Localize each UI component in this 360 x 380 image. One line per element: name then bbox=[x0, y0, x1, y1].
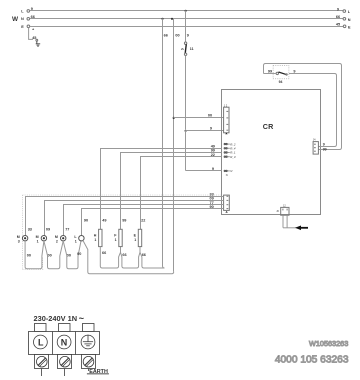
connector J6 on CR bottom bbox=[276, 204, 289, 215]
CR pin N bbox=[224, 169, 233, 177]
svg-text:W10563263: W10563263 bbox=[309, 339, 348, 348]
CR pin R_4 bbox=[224, 147, 236, 151]
svg-text:J6: J6 bbox=[276, 210, 279, 213]
svg-text:1: 1 bbox=[115, 238, 117, 242]
connector J4 on CR bbox=[313, 138, 327, 154]
svg-text:09: 09 bbox=[46, 228, 50, 232]
svg-text:9: 9 bbox=[187, 34, 189, 38]
CR pin R_1 bbox=[224, 151, 236, 155]
screw box N bbox=[58, 355, 72, 369]
svg-text:11: 11 bbox=[190, 47, 194, 51]
svg-text:1: 1 bbox=[134, 238, 136, 242]
dashed enclosure switch panel bbox=[23, 195, 222, 269]
wire L1 to 00 bus outer loop bbox=[83, 240, 174, 273]
wire stub L bbox=[41, 369, 43, 377]
svg-text:66: 66 bbox=[336, 15, 340, 19]
svg-text:N: N bbox=[348, 18, 351, 22]
terminal block 230-240V bbox=[29, 314, 109, 376]
svg-text:CR: CR bbox=[263, 122, 274, 131]
heater H1 bbox=[94, 219, 107, 255]
screw box L bbox=[35, 355, 49, 369]
wire earth branch 45 bbox=[29, 28, 38, 41]
svg-text:E: E bbox=[21, 25, 24, 29]
wire stub earth bbox=[88, 369, 90, 372]
svg-text:77: 77 bbox=[65, 228, 69, 232]
control board CR bbox=[222, 90, 321, 215]
svg-text:66: 66 bbox=[122, 253, 126, 257]
wire J6 down pair bbox=[283, 215, 297, 228]
push switch M1 bbox=[36, 235, 52, 257]
svg-text:33: 33 bbox=[28, 228, 32, 232]
wire 66 vertical from N bbox=[163, 19, 168, 269]
svg-text:45: 45 bbox=[336, 23, 340, 27]
svg-text:F: F bbox=[114, 234, 117, 238]
wire 77 bbox=[64, 201, 224, 236]
wire 00 into CR top connector bbox=[174, 114, 224, 118]
svg-text:1: 1 bbox=[94, 238, 96, 242]
heater E1 bbox=[134, 219, 146, 258]
svg-text:N: N bbox=[21, 17, 24, 21]
wire stub N bbox=[64, 369, 66, 377]
connector J1 on CR bbox=[224, 105, 229, 135]
wire 90 bbox=[82, 205, 224, 236]
svg-text:M: M bbox=[55, 235, 58, 239]
svg-text:00: 00 bbox=[77, 252, 81, 256]
screw box E bbox=[82, 355, 96, 369]
svg-text:L: L bbox=[21, 9, 24, 13]
svg-text:E: E bbox=[134, 234, 137, 238]
svg-text:230-240V 1N: 230-240V 1N bbox=[34, 314, 78, 323]
svg-text:L: L bbox=[38, 337, 44, 347]
wire 22 bbox=[141, 153, 222, 229]
wire 99 loop to J4 bbox=[264, 64, 342, 150]
wire 9 into CR top connector bbox=[186, 127, 224, 171]
wire 00 vertical from N bbox=[174, 19, 180, 272]
wire 9 to pin N bbox=[186, 167, 222, 171]
terminal E right bbox=[336, 23, 351, 30]
terminal earth circle bbox=[81, 335, 95, 349]
svg-text:H: H bbox=[94, 234, 97, 238]
wire M3 to M1 bus bbox=[25, 241, 44, 269]
svg-text:1: 1 bbox=[75, 240, 77, 244]
wire 9 from switch to J4 bbox=[289, 70, 337, 147]
svg-text:L: L bbox=[348, 10, 351, 14]
svg-text:1: 1 bbox=[37, 240, 39, 244]
wire N bbox=[30, 15, 343, 19]
svg-text:N: N bbox=[61, 337, 68, 347]
svg-text:M: M bbox=[36, 235, 39, 239]
svg-text:2: 2 bbox=[56, 240, 58, 244]
svg-text:N: N bbox=[226, 173, 228, 177]
junction 00 to CR connector bbox=[173, 117, 175, 119]
wire 9 vertical from L bbox=[186, 11, 189, 43]
svg-text:3: 3 bbox=[18, 240, 20, 244]
svg-text:66: 66 bbox=[102, 251, 106, 255]
terminal L right bbox=[337, 7, 351, 14]
push switch M3 bbox=[17, 235, 31, 267]
junction on N at x162.5 bbox=[161, 18, 163, 20]
svg-text:4000 105 63263: 4000 105 63263 bbox=[275, 355, 349, 366]
svg-text:66: 66 bbox=[164, 34, 168, 38]
svg-text:9: 9 bbox=[337, 7, 339, 11]
arrow out bbox=[295, 226, 308, 231]
svg-text:M: M bbox=[17, 235, 20, 239]
svg-text:00: 00 bbox=[67, 253, 71, 257]
wire H1 to F1 loop bbox=[100, 247, 120, 268]
wire 33 bbox=[26, 192, 224, 235]
wire M1 to M2 loop bbox=[44, 241, 63, 269]
junction 9 to CR connector bbox=[185, 130, 187, 132]
wire F1 to E1 loop bbox=[121, 247, 141, 268]
wire 99 to switch bbox=[264, 70, 277, 74]
wire M2 to L1 loop bbox=[63, 241, 81, 269]
svg-text:66: 66 bbox=[142, 253, 146, 257]
connector J3 on CR bottom-left bbox=[224, 195, 230, 213]
svg-text:L: L bbox=[74, 235, 77, 239]
tab E bbox=[83, 324, 95, 332]
block body bbox=[29, 332, 100, 355]
terminal N left bbox=[21, 17, 30, 21]
svg-text:00: 00 bbox=[175, 34, 179, 38]
wire 49 bbox=[101, 145, 222, 230]
terminal N circle bbox=[57, 335, 71, 349]
wire E bbox=[30, 26, 343, 28]
svg-text:90: 90 bbox=[84, 219, 88, 223]
svg-text:E: E bbox=[348, 26, 351, 30]
svg-text:99: 99 bbox=[122, 219, 126, 223]
CR pin R_3 bbox=[224, 155, 236, 159]
terminal E left bbox=[21, 25, 29, 29]
terminal L left bbox=[21, 9, 29, 13]
tab N bbox=[59, 324, 71, 332]
svg-text:~: ~ bbox=[79, 314, 84, 324]
svg-text:94: 94 bbox=[279, 80, 283, 84]
tab L bbox=[35, 324, 47, 332]
svg-text:00: 00 bbox=[27, 253, 31, 257]
svg-text:W: W bbox=[12, 16, 19, 23]
wire 99 bbox=[121, 149, 222, 230]
svg-text:R_3: R_3 bbox=[230, 155, 236, 159]
svg-text:49: 49 bbox=[102, 219, 106, 223]
svg-text:99: 99 bbox=[323, 148, 327, 152]
svg-text:00: 00 bbox=[48, 253, 52, 257]
junction on L at x186 bbox=[185, 10, 187, 12]
wire 09 bbox=[45, 197, 224, 236]
lamp L1 bbox=[74, 235, 84, 256]
wire E1 to 66 bus bbox=[140, 252, 165, 268]
switch SW (dashed) bbox=[273, 66, 289, 84]
push switch M2 bbox=[55, 235, 71, 257]
wire L bbox=[30, 7, 343, 11]
junction on N at x173.7 bbox=[171, 18, 173, 20]
CR pin R_2 bbox=[224, 142, 236, 146]
svg-text:22: 22 bbox=[141, 219, 145, 223]
svg-text:+: + bbox=[32, 28, 35, 32]
thermal cutout 11 bbox=[181, 42, 193, 130]
svg-text:N: N bbox=[230, 169, 233, 173]
terminal L circle bbox=[34, 335, 48, 349]
terminal N right bbox=[336, 15, 351, 22]
heater F1 bbox=[114, 219, 126, 258]
svg-text:9: 9 bbox=[323, 143, 325, 147]
svg-text:J4: J4 bbox=[313, 138, 316, 141]
ground bbox=[36, 41, 41, 46]
